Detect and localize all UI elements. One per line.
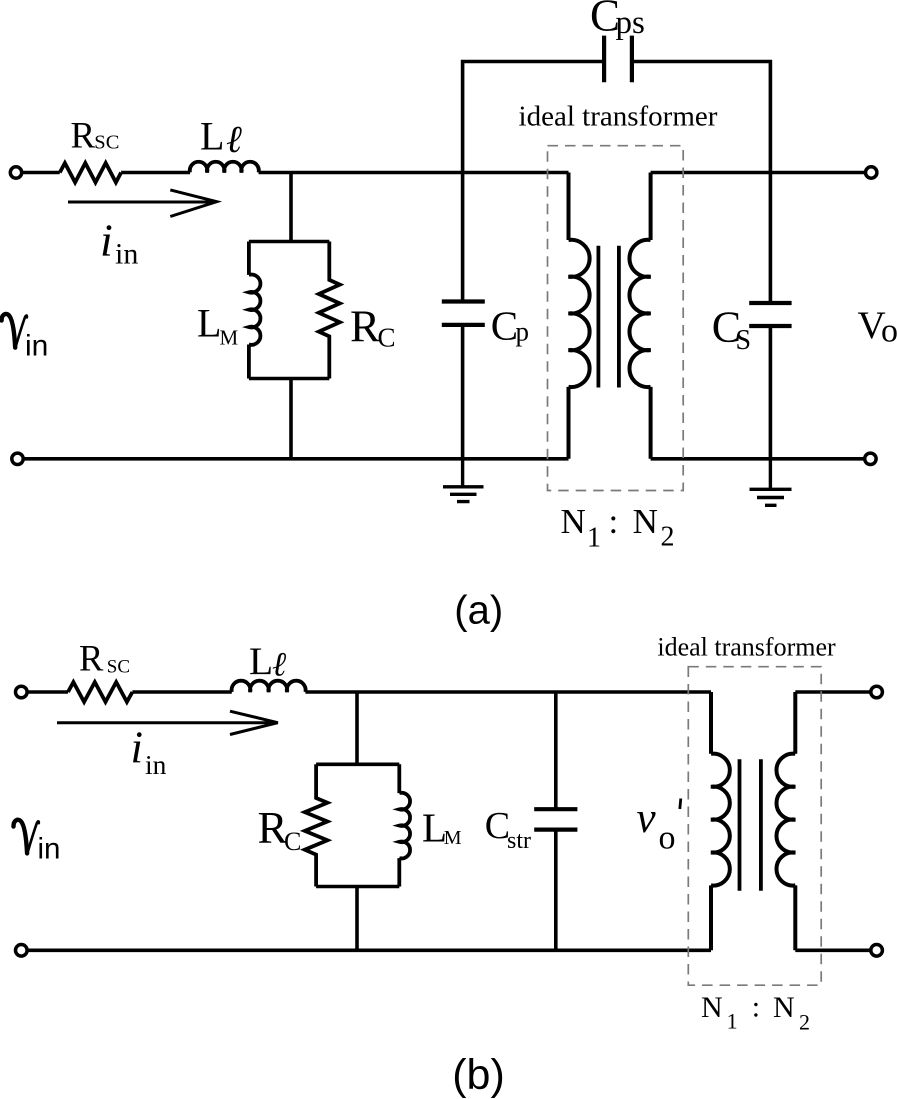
svg-text:L: L bbox=[197, 301, 221, 346]
inductor Ll (b) bbox=[232, 681, 306, 692]
svg-text:o: o bbox=[881, 313, 897, 350]
svg-text:1: 1 bbox=[587, 523, 601, 554]
svg-text:in: in bbox=[145, 749, 167, 780]
terminal bottom-right (b) bbox=[871, 945, 883, 957]
svg-text:in: in bbox=[25, 330, 48, 363]
wire input to resistor (b) bbox=[27, 690, 68, 694]
terminal output top-right (a) bbox=[866, 167, 877, 178]
wire resistor to inductor (a) bbox=[121, 171, 190, 175]
resistor RSC (b) bbox=[68, 682, 132, 702]
svg-text:ideal transformer: ideal transformer bbox=[657, 633, 836, 662]
svg-text:R: R bbox=[258, 803, 288, 853]
svg-text:i: i bbox=[100, 215, 113, 266]
svg-text:p: p bbox=[516, 317, 530, 347]
svg-text:(a): (a) bbox=[454, 588, 503, 632]
svg-text:SC: SC bbox=[94, 131, 119, 153]
bottom rail right segment (a) bbox=[651, 457, 865, 461]
inductor LM (b) right branch with coil bbox=[399, 764, 410, 886]
svg-text:M: M bbox=[444, 827, 462, 849]
svg-text:ps: ps bbox=[616, 5, 645, 41]
wire box bottom to bottom rail (a) bbox=[289, 379, 293, 459]
svg-text::: : bbox=[609, 502, 619, 541]
resistor RSC (a) bbox=[60, 163, 121, 182]
svg-text:R: R bbox=[79, 637, 104, 678]
svg-text:ideal transformer: ideal transformer bbox=[519, 101, 718, 133]
svg-text:(b): (b) bbox=[452, 1051, 505, 1099]
svg-text:S: S bbox=[736, 325, 752, 356]
terminal bottom-left (b) bbox=[15, 945, 27, 957]
transformer T1 primary winding (a) bbox=[569, 173, 590, 459]
capacitor Cs top lead (a) bbox=[769, 173, 773, 304]
node box top edge (a) bbox=[249, 240, 329, 244]
svg-text:L: L bbox=[200, 114, 224, 159]
terminal input top-left (a) bbox=[10, 167, 21, 178]
inductor LM (a) left branch with coil bbox=[249, 242, 261, 379]
svg-text:C: C bbox=[491, 303, 518, 349]
transformer T2 secondary winding (b) bbox=[776, 692, 795, 950]
wire resistor to inductor (b) bbox=[132, 690, 231, 694]
transformer T2 core bars (b) bbox=[740, 759, 761, 891]
current arrow iin (b) bbox=[57, 711, 278, 734]
svg-text:ℓ: ℓ bbox=[226, 119, 242, 161]
wire junction down to LM-RC box (a) bbox=[289, 173, 293, 242]
capacitor Cs bottom lead (a) bbox=[769, 326, 773, 459]
label Vin source (b) bbox=[13, 820, 38, 854]
svg-text:str: str bbox=[507, 828, 531, 854]
svg-text:N: N bbox=[561, 502, 586, 541]
svg-text:i: i bbox=[131, 722, 144, 772]
svg-text:v: v bbox=[637, 795, 657, 842]
svg-text:N: N bbox=[633, 502, 658, 541]
ground under Cp (a) bbox=[443, 459, 484, 502]
svg-text:R: R bbox=[350, 302, 380, 352]
node box bottom edge (b) bbox=[316, 885, 399, 889]
terminal output top-right (b) bbox=[871, 686, 883, 698]
terminal bottom-left (a) bbox=[12, 453, 23, 464]
transformer T2 primary winding (b) bbox=[711, 692, 730, 950]
node box top edge (b) bbox=[316, 762, 399, 766]
capacitor Cp bottom lead (a) bbox=[461, 325, 465, 459]
transformer T1 secondary winding (a) bbox=[629, 173, 650, 459]
wire input to resistor (a) bbox=[22, 171, 60, 175]
label Vin source (a) bbox=[2, 314, 27, 348]
capacitor Cp top lead (a) bbox=[461, 173, 465, 302]
wire top node to transformer primary (b) bbox=[305, 690, 711, 694]
svg-text::: : bbox=[752, 990, 760, 1023]
resistor RC (b) left branch with zigzag bbox=[305, 764, 328, 886]
wire secondary to output terminal (b) bbox=[795, 690, 870, 694]
svg-text:in: in bbox=[115, 237, 138, 270]
svg-text:R: R bbox=[71, 115, 96, 156]
svg-text:ℓ: ℓ bbox=[272, 647, 286, 684]
bottom rail right segment (b) bbox=[795, 948, 870, 952]
svg-text:N: N bbox=[701, 991, 723, 1024]
prime mark of vo (b) bbox=[680, 799, 681, 810]
dashed ideal-transformer box (a) bbox=[548, 146, 684, 491]
node box bottom edge (a) bbox=[249, 377, 329, 381]
capacitor Cstr bottom lead (b) bbox=[554, 830, 558, 951]
bottom rail left segment (b) bbox=[27, 948, 711, 952]
capacitor Cs plates (a) bbox=[749, 303, 791, 326]
capacitor Cps plates (a) bbox=[604, 36, 632, 83]
capacitor Cp plates (a) bbox=[442, 302, 485, 325]
capacitor Cstr top lead (b) bbox=[554, 692, 558, 809]
svg-text:L: L bbox=[249, 639, 273, 683]
dashed ideal-transformer box (b) bbox=[688, 667, 821, 986]
svg-text:in: in bbox=[38, 832, 61, 865]
capacitor Cps bridge wire left (a) bbox=[463, 62, 604, 173]
bottom rail left segment (a) bbox=[22, 457, 569, 461]
wire box bottom to bottom rail (b) bbox=[355, 887, 359, 951]
resistor RC (a) right branch with zigzag bbox=[319, 242, 340, 379]
terminal bottom-right (a) bbox=[865, 453, 876, 464]
svg-text:2: 2 bbox=[799, 1009, 810, 1034]
transformer T1 core bars (a) bbox=[598, 246, 619, 388]
wire top node to transformer primary (a) bbox=[259, 171, 569, 175]
inductor Ll (a) bbox=[190, 162, 259, 173]
capacitor Cps bridge wire right (a) bbox=[632, 62, 771, 173]
ground under Cs (a) bbox=[750, 459, 792, 506]
current arrow iin (a) bbox=[68, 190, 217, 217]
terminal input top-left (b) bbox=[15, 686, 27, 698]
svg-text:o: o bbox=[659, 820, 676, 857]
wire junction down to RC-LM box (b) bbox=[355, 692, 359, 764]
svg-text:C: C bbox=[284, 827, 301, 856]
svg-text:1: 1 bbox=[727, 1009, 738, 1034]
svg-text:N: N bbox=[773, 991, 795, 1024]
svg-text:SC: SC bbox=[107, 657, 130, 678]
svg-text:C: C bbox=[378, 322, 396, 352]
svg-text:M: M bbox=[220, 326, 239, 350]
svg-text:2: 2 bbox=[661, 522, 675, 553]
capacitor Cstr plates (b) bbox=[534, 809, 577, 829]
wire secondary to output terminal (a) bbox=[651, 171, 866, 175]
